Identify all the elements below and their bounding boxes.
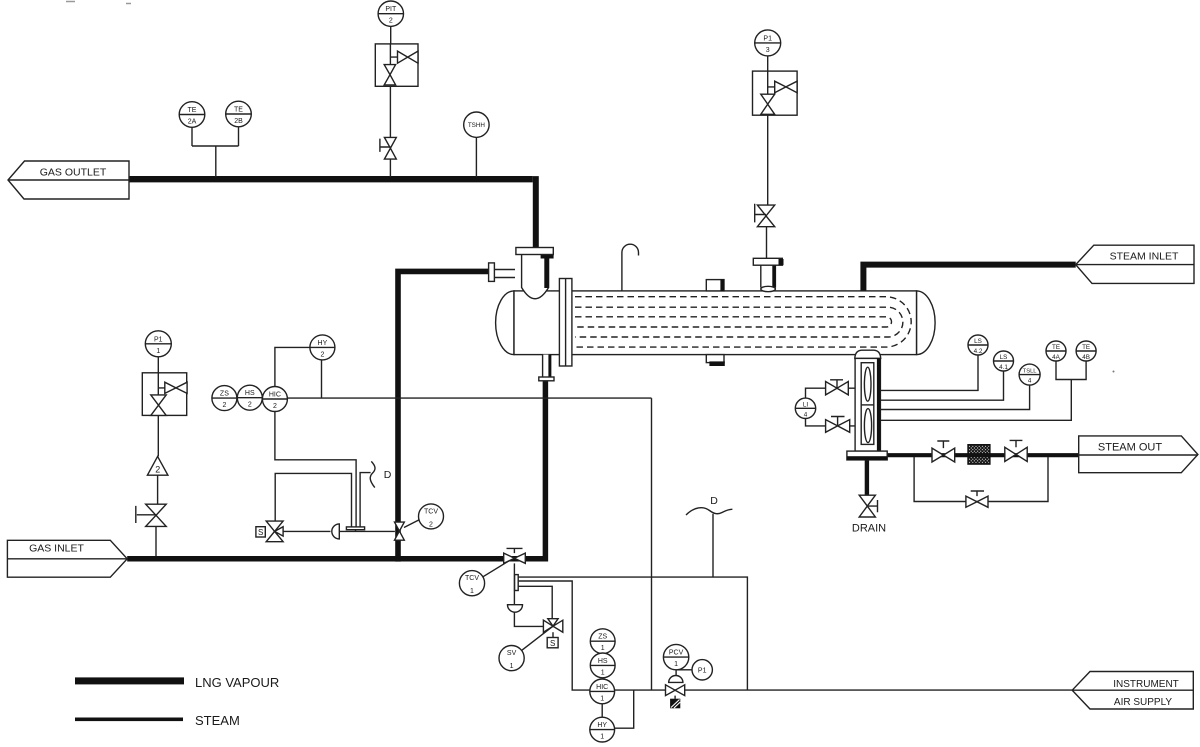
wire: tap line b - to HIC1 via x572 [518, 581, 590, 690]
wire: HIC2 long signal line to junction x651 [287, 397, 651, 399]
svg-text:4.2: 4.2 [974, 348, 983, 355]
wire: instrument air supply line [615, 689, 1073, 691]
wire: solenoid S to dome to TCV2 valve [283, 530, 395, 532]
level gauge column LG4: neck dome [855, 350, 881, 358]
wire: drain valve stem [867, 500, 877, 512]
wire: TSHH drop to gas outlet pipe [475, 137, 477, 177]
svg-text:2A: 2A [188, 119, 197, 126]
svg-text:HS: HS [598, 658, 608, 665]
gauge isolation valve upper (LI4) [826, 382, 849, 395]
wire: LI4 lower tap [806, 419, 826, 426]
svg-text:HIC: HIC [596, 684, 608, 691]
wire: TCV1 tag diagonal [483, 561, 510, 577]
svg-text:4B: 4B [1082, 354, 1090, 361]
wire: PCV1 stem [675, 670, 676, 699]
wire: HY2 drop to signal line [321, 360, 323, 398]
vessel E1: small bottom bump nozzle [706, 355, 724, 363]
actuator dome (TCV1) [508, 605, 523, 613]
instrument HIC 2 [262, 387, 287, 412]
svg-text:HY: HY [318, 340, 328, 347]
bypass valve [966, 496, 988, 507]
vessel E1: channel top nozzle (gas outlet) [522, 255, 549, 299]
control valve TCV2 (on LNG riser) [395, 522, 405, 540]
instrument TE 2B [226, 101, 252, 127]
instrument TSLL 4 [1019, 364, 1040, 385]
wire: TCV1 stem and handwheel [507, 548, 523, 553]
svg-text:2: 2 [389, 18, 393, 25]
pipe: steam inlet (thick) [863, 265, 1075, 291]
instrument ZS 1 [590, 629, 615, 654]
solenoid valve SV1 (3-way) [543, 619, 562, 633]
svg-text:2: 2 [429, 521, 433, 528]
legend: STEAM line sample [75, 718, 183, 722]
svg-text:TCV: TCV [465, 575, 479, 582]
solenoid valve (TCV2 pilot, 3-way) [266, 521, 283, 542]
wire: TE4A/4B Y-connector [1056, 361, 1086, 379]
svg-text:P1: P1 [698, 667, 707, 674]
wire: LI4 upper tap [806, 388, 826, 398]
wire: PIT2 instrument line [389, 27, 391, 178]
level gauge column LG4: bottom flange [847, 451, 887, 460]
wire: HY1 loop to air line [615, 690, 634, 728]
instrument HY 1 [590, 717, 615, 742]
instrument PI 3 [755, 30, 781, 56]
svg-text:PCV: PCV [669, 650, 684, 657]
vessel E1: hook vent on shell top [622, 244, 639, 291]
drain valve [859, 495, 875, 517]
valve inside PI1 box (horizontal) [165, 382, 187, 393]
svg-text:4.1: 4.1 [999, 364, 1008, 371]
svg-text:P1: P1 [154, 336, 163, 343]
svg-text:1: 1 [674, 661, 678, 668]
svg-text:SV: SV [507, 650, 517, 657]
wire: TE2A stem [191, 127, 193, 146]
S box (SV1) [547, 638, 558, 648]
svg-text:TE: TE [188, 107, 197, 114]
pipe: gas inlet riser up to channel bottom nozzle [543, 380, 549, 562]
level gauge column LG4: body [855, 358, 880, 451]
manifold box (PI3) [753, 71, 798, 115]
svg-text:1: 1 [601, 645, 605, 652]
svg-text:TCV: TCV [424, 508, 438, 515]
reducer/spec item triangle 2 on PI1 line [147, 456, 168, 475]
svg-text:TSHH: TSHH [468, 122, 486, 129]
flag: STEAM INLET [1076, 245, 1194, 283]
vessel E1: tube sheet flange [559, 279, 572, 367]
wire: PI3 instrument line [767, 56, 768, 258]
instrument PI 1 [145, 331, 171, 357]
legend: LNG VAPOUR line sample [75, 677, 184, 684]
wire: bypass loop [914, 457, 1048, 502]
instrument LS 4.1 [994, 351, 1014, 371]
valve inside PIT2 box (horizontal) [398, 51, 419, 63]
pipe: drain line [865, 460, 869, 496]
wire: column to TSLL4 [880, 385, 1029, 409]
instrument PCV 1 [663, 644, 688, 669]
instrument LS 4.2 [968, 335, 988, 355]
svg-text:2: 2 [222, 402, 226, 409]
wire: solenoid branch to TCV2 positioner (inner L) [275, 473, 351, 527]
svg-text:4: 4 [1028, 378, 1032, 385]
scan artifact marks [66, 2, 131, 4]
svg-text:2: 2 [320, 351, 324, 358]
instrument tag P1 [692, 660, 712, 680]
svg-text:HS: HS [245, 390, 255, 397]
svg-text:TE: TE [1052, 344, 1060, 351]
vessel E1: shell and tube heat exchanger body [496, 291, 936, 355]
svg-text:DRAIN: DRAIN [852, 523, 886, 535]
wire: TCV1 dome to SV1 solenoid [514, 612, 543, 626]
svg-text:STEAM INLET: STEAM INLET [1110, 251, 1179, 263]
wire: steam trap block valve stems [937, 440, 1022, 448]
instrument LI 4 [795, 398, 815, 418]
svg-text:2B: 2B [234, 118, 243, 125]
instrument tag TCV 1 [459, 571, 484, 596]
svg-text:1: 1 [510, 663, 514, 670]
svg-text:1: 1 [601, 669, 605, 676]
pipe: steam out / condensate line [887, 453, 1078, 457]
wire: D-break drop to tap line a [712, 514, 714, 577]
svg-text:TSLL: TSLL [1023, 369, 1038, 375]
pipe: LNG vapour gas outlet (thick) [129, 176, 533, 182]
flag: STEAM OUT [1079, 436, 1198, 473]
block valve on PI1 line [146, 504, 167, 526]
instrument TE 4B [1076, 341, 1096, 361]
pipe: gas outlet riser down to channel top nozzle [533, 176, 539, 248]
svg-text:1: 1 [600, 734, 604, 741]
instrument HS 2 [237, 385, 262, 410]
svg-text:PIT: PIT [385, 6, 397, 13]
wire: HIC2 to HY2 signal [275, 347, 310, 386]
valve inside PI1 box (vertical) [151, 395, 166, 416]
pipe: TCV2 branch - horizontal to channel left nozzle and riser down to gas inlet [398, 271, 489, 561]
instrument PIT 2 [378, 1, 403, 26]
svg-text:4: 4 [804, 411, 808, 418]
vessel E1: steam inlet top nozzle with flange [761, 265, 776, 288]
svg-text:2: 2 [273, 403, 277, 410]
svg-text:1: 1 [600, 695, 604, 702]
wire: gauge valves to column [848, 388, 855, 426]
wire: tap line c - to SV1 solenoid top [518, 586, 552, 618]
svg-text:AIR SUPPLY: AIR SUPPLY [1114, 697, 1172, 708]
wire: column to LS4.2 [880, 355, 978, 390]
svg-text:INSTRUMENT: INSTRUMENT [1113, 679, 1179, 690]
instrument HIC 1 [590, 679, 615, 704]
vent box below PCV1 [670, 699, 680, 709]
control valve TCV1 (on gas inlet) [504, 553, 526, 563]
svg-text:2: 2 [155, 465, 160, 475]
wire: SV1 tag diagonal [522, 626, 553, 650]
svg-text:TE: TE [234, 107, 243, 114]
wire: junction riser x651 down to instrument air line [651, 398, 653, 690]
svg-text:GAS INLET: GAS INLET [29, 543, 84, 555]
valve inside PIT2 box (vertical) [384, 65, 395, 85]
svg-text:LS: LS [1000, 354, 1008, 361]
svg-text:3: 3 [766, 47, 770, 54]
wire: TCV1 to actuator dome [513, 563, 515, 604]
block valve on steam vent line (below PI3) [757, 205, 774, 227]
wire: HIC2 signal down to TCV2 positioner (outer L) [275, 412, 356, 527]
svg-text:GAS OUTLET: GAS OUTLET [40, 167, 107, 179]
svg-text:S: S [550, 639, 555, 648]
block valve below PIT2 box [384, 137, 396, 159]
break symbol D (near TCV2) [370, 461, 375, 487]
actuator bar of TCV2 positioner [346, 527, 364, 530]
instrument ZS 2 [212, 386, 237, 411]
S box (TCV2 pilot solenoid) [256, 527, 265, 537]
break symbol D (air line) [686, 508, 732, 515]
wire: column to TE4A/4B [880, 380, 1071, 421]
svg-text:D: D [710, 495, 718, 507]
valve inside PI3 box (horizontal) [775, 81, 797, 93]
wire: TCV2 valve to TCV2 tag circle [404, 520, 419, 528]
manifold box (PIT2) [375, 44, 418, 86]
svg-text:LNG VAPOUR: LNG VAPOUR [195, 675, 279, 690]
svg-text:2: 2 [248, 402, 252, 409]
svg-text:TE: TE [1082, 344, 1090, 351]
control valve PCV1 (on air supply) [666, 685, 685, 696]
steam trap block valve 2 [1005, 447, 1027, 461]
level gauge column LG4: upper sight glass [864, 367, 871, 401]
actuator dome (PCV1) [669, 676, 683, 683]
half dome actuator (TCV2) [332, 524, 339, 539]
svg-text:ZS: ZS [598, 634, 607, 641]
svg-text:STEAM: STEAM [195, 713, 240, 728]
instrument tag TCV 2 [419, 504, 444, 529]
flag: GAS OUTLET [8, 161, 129, 199]
wire: D-break branch to TCV2 positioner [360, 473, 371, 527]
tap block on TCV1 stem [515, 575, 519, 591]
wire: bypass valve stem [971, 491, 984, 496]
wire: column to LS4.1 [880, 371, 1003, 400]
svg-text:D: D [384, 469, 392, 481]
instrument TSHH [464, 112, 489, 137]
gauge isolation valve lower (LI4) [826, 420, 850, 433]
wire: PI1 instrument line [156, 357, 158, 556]
svg-text:1: 1 [156, 348, 160, 355]
svg-text:HIC: HIC [269, 392, 281, 399]
svg-text:STEAM OUT: STEAM OUT [1098, 442, 1162, 454]
level gauge column LG4: lower sight glass [864, 409, 871, 443]
instrument HY 2 [310, 335, 335, 360]
flag: GAS INLET [7, 540, 127, 577]
instrument TE 4A [1046, 341, 1066, 361]
steam trap strainer [968, 445, 990, 464]
svg-text:S: S [258, 528, 263, 537]
wire: tap line a - to air line via x747 [518, 577, 747, 690]
svg-text:LI: LI [803, 401, 809, 408]
svg-text:ZS: ZS [220, 391, 229, 398]
svg-text:1: 1 [470, 588, 474, 595]
instrument tag SV 1 [499, 646, 524, 671]
svg-text:HY: HY [597, 722, 607, 729]
flag: INSTRUMENT AIR SUPPLY [1072, 672, 1193, 710]
pipe: gas inlet (thick) [127, 556, 545, 562]
valve inside PI3 box (vertical) [761, 94, 775, 114]
vessel E1: channel bottom nozzle (gas inlet) [543, 355, 551, 377]
svg-text:4A: 4A [1052, 354, 1061, 361]
svg-text:P1: P1 [763, 35, 772, 42]
vessel E1: U-tube bundle (dashed) [575, 297, 911, 347]
vessel E1: channel left nozzle [494, 270, 515, 278]
wire: PCV1 to P1 tag [677, 669, 692, 671]
wire: HIC1 to HY1 [601, 704, 603, 717]
instrument HS 1 [590, 653, 615, 678]
vessel E1: small top bump nozzle [706, 280, 724, 291]
wire: TE2A/2B connector and drop to gas outlet pipe [192, 146, 239, 177]
wire: SV1 solenoid to S box [552, 632, 554, 637]
instrument TE 2A [179, 102, 205, 128]
wire: TE2B stem [238, 127, 240, 146]
manifold box (PI1) [142, 373, 186, 416]
steam trap block valve 1 [932, 448, 955, 462]
svg-text:LS: LS [974, 338, 982, 345]
